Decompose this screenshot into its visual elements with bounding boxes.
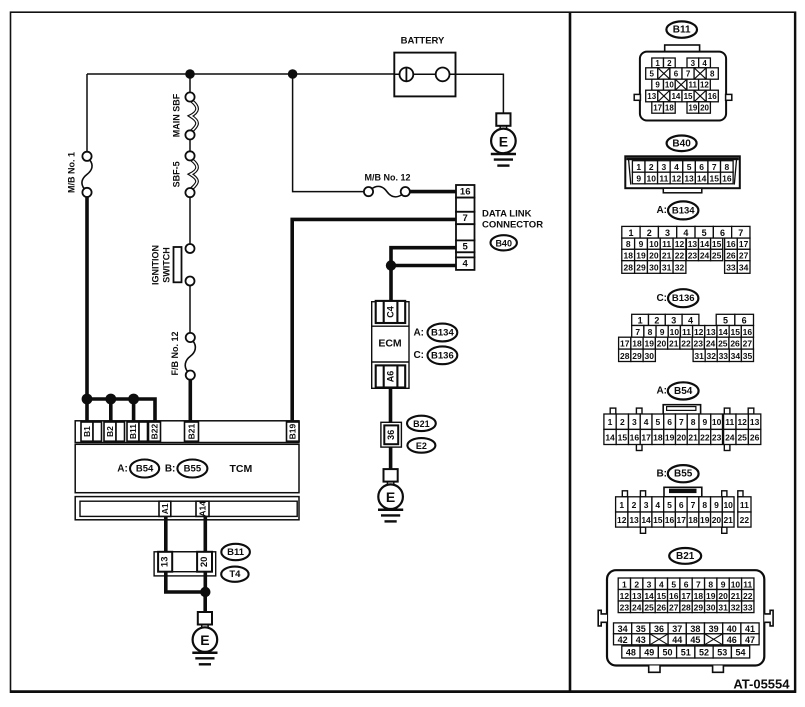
svg-text:13: 13 <box>750 417 760 427</box>
connector B21 pin grid row 48-54 <box>622 646 640 658</box>
svg-text:TCM: TCM <box>230 463 253 475</box>
svg-text:21: 21 <box>731 591 741 601</box>
connector B54 bottom bumps <box>636 444 642 450</box>
connector B21 pin grid row 23-33 <box>618 601 630 613</box>
svg-text:8: 8 <box>724 162 729 172</box>
svg-text:12: 12 <box>672 174 682 184</box>
svg-text:16: 16 <box>708 92 717 101</box>
battery positive terminal <box>400 68 414 82</box>
svg-text:10: 10 <box>712 417 722 427</box>
svg-text:17: 17 <box>620 339 630 349</box>
svg-text:28: 28 <box>623 263 633 273</box>
connector B55 top bumps <box>622 491 627 497</box>
svg-text:SWITCH: SWITCH <box>162 247 172 283</box>
svg-text:22: 22 <box>675 251 685 261</box>
label T4 <box>221 567 248 582</box>
fuse M/B No. 12 <box>364 187 373 196</box>
svg-text:20: 20 <box>677 432 687 442</box>
svg-text:2: 2 <box>667 59 672 68</box>
ground E (battery) <box>496 113 510 126</box>
node: junction top bus / ignition chain <box>185 69 195 79</box>
TCM pin B11 <box>127 422 139 441</box>
svg-text:12: 12 <box>620 591 630 601</box>
connector A6 on ECM <box>376 365 406 387</box>
wire: junction to ground connector <box>203 592 207 613</box>
connector B136 pin grid row 28-35 <box>619 349 631 361</box>
svg-text:30: 30 <box>706 602 716 612</box>
svg-text:6: 6 <box>720 228 725 238</box>
svg-text:10: 10 <box>731 579 741 589</box>
svg-text:MAIN SBF: MAIN SBF <box>172 93 182 137</box>
connector B11 pinout <box>666 21 697 37</box>
label E2 <box>407 438 435 453</box>
svg-text:B1: B1 <box>82 426 92 437</box>
svg-text:15: 15 <box>657 591 667 601</box>
svg-text:9: 9 <box>714 500 719 510</box>
svg-text:11: 11 <box>662 239 671 249</box>
TCM top connector strip <box>75 421 299 443</box>
svg-text:20: 20 <box>700 104 709 113</box>
connector B136 pin grid row 7-16 <box>632 326 644 338</box>
wire: top bus down/right to fuse M/B No.12 <box>293 74 365 192</box>
connector B55 bottom bumps <box>640 527 645 533</box>
connector B54 pin grid row 1-13 <box>604 414 616 429</box>
svg-text:19: 19 <box>645 339 655 349</box>
svg-text:53: 53 <box>717 648 727 658</box>
svg-text:18: 18 <box>623 251 633 261</box>
svg-text:16: 16 <box>726 239 736 249</box>
svg-text:9: 9 <box>721 579 726 589</box>
op ECM body <box>372 302 409 389</box>
svg-text:A:: A: <box>656 386 667 397</box>
connector B11 pin grid row 1-4 <box>652 58 664 68</box>
svg-text:20: 20 <box>712 515 722 525</box>
wire: pin 13 down and right to ground junction <box>166 572 206 592</box>
svg-text:51: 51 <box>681 648 691 658</box>
wire: joint 36 to ground <box>389 447 393 470</box>
svg-text:18: 18 <box>632 339 642 349</box>
svg-text:23: 23 <box>688 251 698 261</box>
svg-text:36: 36 <box>654 624 664 634</box>
svg-text:4: 4 <box>463 259 469 270</box>
connector B11 top tab <box>665 45 700 52</box>
svg-text:6: 6 <box>699 162 704 172</box>
svg-text:20: 20 <box>199 557 210 568</box>
svg-text:A1: A1 <box>160 503 170 514</box>
svg-text:4: 4 <box>674 162 679 172</box>
connector B40 data link connector pin stack <box>456 185 475 198</box>
wire: TCM A14 to connector pin 20 <box>204 516 208 552</box>
TCM pin B22 <box>149 422 161 441</box>
TCM pin B21 <box>185 422 199 441</box>
svg-text:22: 22 <box>700 432 710 442</box>
svg-text:16: 16 <box>665 515 675 525</box>
svg-text:7: 7 <box>712 162 717 172</box>
svg-text:5: 5 <box>463 241 469 252</box>
svg-text:11: 11 <box>725 417 734 427</box>
svg-text:1: 1 <box>636 162 641 172</box>
svg-text:25: 25 <box>712 251 722 261</box>
svg-text:1: 1 <box>655 59 660 68</box>
svg-text:B21: B21 <box>413 419 430 429</box>
connector B55 pin grid row 1-11 <box>616 497 628 512</box>
connector B21 body <box>607 570 764 665</box>
node: junction at TCM B11 <box>128 394 139 405</box>
svg-text:26: 26 <box>657 602 667 612</box>
svg-text:6: 6 <box>667 417 672 427</box>
svg-text:33: 33 <box>743 602 753 612</box>
TCM bottom connector strip <box>75 497 299 520</box>
svg-text:38: 38 <box>690 624 700 634</box>
svg-text:40: 40 <box>727 624 737 634</box>
svg-text:16: 16 <box>669 591 679 601</box>
svg-text:21: 21 <box>688 432 698 442</box>
svg-text:B54: B54 <box>136 464 154 475</box>
connector B11/T4 (13/20) <box>154 552 216 576</box>
svg-text:E: E <box>200 632 209 648</box>
svg-text:B55: B55 <box>184 464 202 475</box>
connector B54 top center tab <box>663 405 700 415</box>
svg-text:24: 24 <box>706 339 716 349</box>
svg-text:9: 9 <box>660 327 665 337</box>
TCM pin B1 <box>81 422 93 441</box>
wire: fuse F/B No.12 to TCM B21 <box>189 379 193 421</box>
connector B21 pin grid row 34-41 <box>614 623 632 634</box>
svg-text:AT-05554: AT-05554 <box>733 676 790 691</box>
connector B136 pin grid row 17-27 <box>619 337 631 349</box>
svg-text:M/B No. 12: M/B No. 12 <box>364 173 410 183</box>
svg-text:E: E <box>386 489 395 505</box>
svg-text:8: 8 <box>648 327 653 337</box>
svg-text:14: 14 <box>700 239 710 249</box>
node: junction at TCM B1 <box>82 394 93 405</box>
svg-text:14: 14 <box>671 92 680 101</box>
svg-text:30: 30 <box>649 263 659 273</box>
svg-text:34: 34 <box>731 351 741 361</box>
svg-text:A:: A: <box>117 463 128 474</box>
fuse F/B No. 12 <box>186 333 195 342</box>
svg-text:34: 34 <box>618 624 628 634</box>
svg-text:19: 19 <box>636 251 646 261</box>
svg-text:13: 13 <box>160 557 171 568</box>
connector B11 pin grid row 13-16 <box>646 90 658 102</box>
svg-text:B21: B21 <box>187 424 197 440</box>
svg-text:12: 12 <box>737 417 747 427</box>
svg-text:3: 3 <box>665 228 670 238</box>
svg-text:7: 7 <box>691 500 696 510</box>
svg-text:27: 27 <box>669 602 679 612</box>
TCM pin A14 <box>196 501 209 516</box>
svg-text:12: 12 <box>617 515 627 525</box>
svg-text:31: 31 <box>718 602 728 612</box>
connector B21 pin grid row 42-47 <box>614 634 632 645</box>
svg-text:3: 3 <box>671 315 676 325</box>
connector B55 top center tab <box>664 487 702 497</box>
svg-text:11: 11 <box>743 579 752 589</box>
svg-text:22: 22 <box>743 591 753 601</box>
label B21 <box>407 416 436 431</box>
svg-text:2: 2 <box>649 162 654 172</box>
svg-text:54: 54 <box>736 648 746 658</box>
svg-text:17: 17 <box>641 432 651 442</box>
battery <box>394 53 455 97</box>
svg-text:B134: B134 <box>672 205 695 216</box>
svg-text:13: 13 <box>688 239 698 249</box>
svg-text:43: 43 <box>636 635 646 645</box>
svg-text:28: 28 <box>620 351 630 361</box>
svg-text:15: 15 <box>618 432 628 442</box>
connector B134 pin grid row 28-34 <box>622 261 635 274</box>
wire: ignition switch to fuse F/B No.12 <box>189 285 191 333</box>
connector C4 on ECM <box>376 301 406 323</box>
connector B40 bottom tab <box>663 188 702 193</box>
svg-text:11: 11 <box>682 327 691 337</box>
ground E (ECM) <box>384 469 398 482</box>
connector B134 pin grid row 8-17 <box>622 238 635 249</box>
svg-text:17: 17 <box>681 591 691 601</box>
svg-text:13: 13 <box>632 591 642 601</box>
svg-text:19: 19 <box>706 591 716 601</box>
svg-text:5: 5 <box>671 579 676 589</box>
node: junction of DLC pins 4/5 wire <box>386 260 396 270</box>
wire: ECM A6 to joint connector 36 <box>389 388 393 423</box>
svg-text:13: 13 <box>706 327 716 337</box>
wire: junction down to ECM C4 <box>389 266 393 303</box>
connector designator B40 (schematic) <box>491 235 517 250</box>
node: ground junction <box>200 587 210 597</box>
svg-text:16: 16 <box>460 186 471 197</box>
svg-text:3: 3 <box>662 162 667 172</box>
svg-text:B19: B19 <box>288 424 298 440</box>
svg-text:1: 1 <box>619 500 624 510</box>
svg-text:B54: B54 <box>674 386 693 397</box>
svg-text:4: 4 <box>688 315 693 325</box>
svg-text:14: 14 <box>644 591 654 601</box>
svg-text:B40: B40 <box>495 238 512 248</box>
svg-text:32: 32 <box>675 263 685 273</box>
svg-text:42: 42 <box>618 635 628 645</box>
svg-text:3: 3 <box>632 417 637 427</box>
svg-text:3: 3 <box>691 59 696 68</box>
svg-text:2: 2 <box>654 315 659 325</box>
svg-text:10: 10 <box>670 327 680 337</box>
svg-text:5: 5 <box>702 228 707 238</box>
svg-text:39: 39 <box>709 624 719 634</box>
connector B40 pinout <box>667 136 697 152</box>
svg-text:9: 9 <box>636 174 641 184</box>
connector B21 bottom tabs <box>649 666 660 673</box>
svg-text:27: 27 <box>743 339 753 349</box>
svg-text:21: 21 <box>723 515 733 525</box>
svg-text:35: 35 <box>636 624 646 634</box>
svg-text:8: 8 <box>708 579 713 589</box>
svg-text:B11: B11 <box>227 547 245 558</box>
svg-text:26: 26 <box>750 432 760 442</box>
svg-text:31: 31 <box>694 351 704 361</box>
svg-text:19: 19 <box>700 515 710 525</box>
svg-text:B22: B22 <box>150 424 160 440</box>
svg-text:2: 2 <box>647 228 652 238</box>
svg-text:11: 11 <box>659 174 668 184</box>
connector B40 body <box>625 156 740 188</box>
svg-text:ECM: ECM <box>378 337 402 349</box>
connector designator B54 (schematic) <box>130 460 159 478</box>
svg-text:7: 7 <box>738 228 743 238</box>
svg-text:45: 45 <box>690 635 700 645</box>
svg-text:15: 15 <box>710 174 720 184</box>
svg-text:25: 25 <box>644 602 654 612</box>
svg-text:17: 17 <box>653 104 662 113</box>
svg-text:1: 1 <box>622 579 627 589</box>
svg-text:DATA LINK: DATA LINK <box>482 209 532 220</box>
svg-text:A6: A6 <box>386 371 396 383</box>
svg-text:A14: A14 <box>198 501 208 517</box>
svg-text:17: 17 <box>739 239 749 249</box>
svg-text:1: 1 <box>608 417 613 427</box>
svg-text:13: 13 <box>629 515 639 525</box>
svg-text:8: 8 <box>702 500 707 510</box>
connector B54 pin grid row 14-26 <box>604 429 616 444</box>
svg-text:19: 19 <box>688 104 697 113</box>
svg-text:32: 32 <box>731 602 741 612</box>
svg-text:E: E <box>499 133 508 149</box>
svg-text:13: 13 <box>684 174 694 184</box>
svg-text:33: 33 <box>726 263 736 273</box>
svg-text:C:: C: <box>413 350 424 361</box>
svg-text:23: 23 <box>694 339 704 349</box>
svg-text:13: 13 <box>647 92 656 101</box>
svg-text:9: 9 <box>703 417 708 427</box>
svg-text:36: 36 <box>386 430 396 440</box>
column divider line <box>569 13 572 691</box>
svg-text:6: 6 <box>679 500 684 510</box>
svg-text:20: 20 <box>657 339 667 349</box>
svg-text:12: 12 <box>700 81 709 90</box>
svg-text:A:: A: <box>413 327 424 338</box>
svg-text:B11: B11 <box>128 424 138 439</box>
svg-text:C:: C: <box>656 293 667 304</box>
svg-text:31: 31 <box>662 263 672 273</box>
svg-text:34: 34 <box>739 263 749 273</box>
svg-text:1: 1 <box>628 228 633 238</box>
svg-text:26: 26 <box>730 339 740 349</box>
svg-text:17: 17 <box>677 515 687 525</box>
svg-text:29: 29 <box>636 263 646 273</box>
svg-text:B134: B134 <box>431 328 454 339</box>
connector B11 body <box>640 52 726 121</box>
connector B11 side tabs <box>634 94 640 100</box>
svg-text:24: 24 <box>700 251 710 261</box>
svg-text:33: 33 <box>719 351 729 361</box>
connector 36 (B21/E2 joint) <box>381 422 402 447</box>
svg-text:28: 28 <box>681 602 691 612</box>
svg-text:20: 20 <box>649 251 659 261</box>
svg-text:8: 8 <box>691 417 696 427</box>
svg-text:F/B No. 12: F/B No. 12 <box>170 331 180 375</box>
connector B55 pin grid row 12-22 <box>616 512 628 527</box>
svg-text:7: 7 <box>696 579 701 589</box>
svg-text:5: 5 <box>656 417 661 427</box>
svg-text:18: 18 <box>694 591 704 601</box>
wire: fuse M/B No.1 to TCM B1 <box>85 197 89 422</box>
svg-text:7: 7 <box>463 213 468 224</box>
ground E (TCM) <box>198 612 212 625</box>
svg-text:B2: B2 <box>105 426 115 437</box>
svg-text:52: 52 <box>699 648 709 658</box>
connector designator B55 (schematic) <box>177 460 207 478</box>
wire: top bus to fuse MAIN SBF <box>189 74 191 93</box>
svg-text:12: 12 <box>694 327 704 337</box>
svg-text:30: 30 <box>645 351 655 361</box>
connector B134 pin grid row 1-7 <box>622 226 640 238</box>
svg-text:26: 26 <box>726 251 736 261</box>
svg-text:4: 4 <box>702 59 707 68</box>
svg-text:T4: T4 <box>229 569 241 580</box>
svg-text:24: 24 <box>632 602 642 612</box>
svg-text:B40: B40 <box>672 138 691 149</box>
svg-text:23: 23 <box>712 432 722 442</box>
wire: MAIN SBF to SBF-5 <box>189 139 191 152</box>
svg-text:25: 25 <box>737 432 747 442</box>
connector B21 side tabs <box>598 610 607 626</box>
svg-text:10: 10 <box>723 500 733 510</box>
svg-text:BATTERY: BATTERY <box>401 36 445 47</box>
svg-text:37: 37 <box>672 624 682 634</box>
svg-text:29: 29 <box>632 351 642 361</box>
svg-text:CONNECTOR: CONNECTOR <box>482 220 543 231</box>
svg-text:B:: B: <box>165 463 176 474</box>
svg-text:11: 11 <box>689 81 698 90</box>
wire: battery negative to ground <box>456 74 504 114</box>
svg-text:21: 21 <box>662 251 672 261</box>
svg-text:SBF-5: SBF-5 <box>172 161 182 187</box>
svg-text:5: 5 <box>687 162 692 172</box>
svg-text:44: 44 <box>672 635 682 645</box>
connector B54 top bumps <box>610 408 616 414</box>
wire: top bus down to fuse M/B No.1 <box>86 74 88 152</box>
svg-text:20: 20 <box>718 591 728 601</box>
svg-text:18: 18 <box>653 432 663 442</box>
TCM pin B2 <box>104 422 116 441</box>
wire: TCM A1 to connector pin 13 <box>164 516 168 552</box>
svg-text:5: 5 <box>650 70 655 79</box>
svg-text:15: 15 <box>730 327 740 337</box>
svg-text:7: 7 <box>679 417 684 427</box>
svg-text:11: 11 <box>740 500 749 510</box>
connector B11 pin grid row 17-20 <box>652 102 664 113</box>
TCM pin B19 <box>287 422 300 441</box>
svg-text:21: 21 <box>669 339 679 349</box>
svg-text:14: 14 <box>718 327 728 337</box>
fuse SBF-5 <box>191 160 197 189</box>
svg-text:4: 4 <box>655 500 660 510</box>
svg-text:18: 18 <box>665 104 674 113</box>
svg-text:24: 24 <box>725 432 735 442</box>
connector B134 pin grid row 18-27 <box>622 249 635 260</box>
wire: data link connector pin 7 to TCM B19 <box>292 219 456 421</box>
svg-text:47: 47 <box>745 635 755 645</box>
connector B21 pin grid row 12-22 <box>618 590 630 602</box>
svg-text:14: 14 <box>641 515 651 525</box>
node: junction top bus / M/B No.12 branch <box>288 69 298 79</box>
svg-text:2: 2 <box>620 417 625 427</box>
svg-text:18: 18 <box>688 515 698 525</box>
connector B21 pinout <box>669 548 701 564</box>
wire: feed bus to TCM B1/B2/B11/B22 <box>87 399 155 422</box>
svg-text:23: 23 <box>620 602 630 612</box>
svg-text:14: 14 <box>605 432 615 442</box>
svg-text:5: 5 <box>667 500 672 510</box>
